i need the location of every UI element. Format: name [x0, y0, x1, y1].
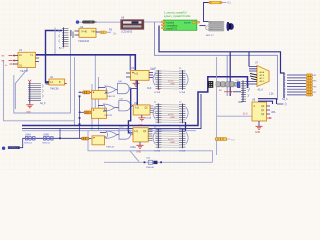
svg-text:BUZ 12: BUZ 12: [206, 35, 214, 37]
svg-text:wx 5v: wx 5v: [168, 81, 174, 83]
svg-text:A3_0: A3_0: [282, 98, 288, 101]
svg-text:U5A: U5A: [238, 101, 243, 104]
svg-text:CLOCK=1: CLOCK=1: [8, 148, 18, 150]
svg-text:1N4148: 1N4148: [146, 167, 154, 169]
svg-text:U14B: U14B: [43, 135, 49, 137]
svg-text:A Q: A Q: [134, 73, 138, 76]
svg-text:U12A: U12A: [146, 117, 152, 120]
svg-text:system_crystal/2.5 buffer: system_crystal/2.5 buffer: [164, 15, 191, 18]
svg-text:A0 A: A0 A: [260, 71, 265, 74]
svg-text:-crystal/sec: -crystal/sec: [166, 24, 178, 27]
svg-text:GND: GND: [136, 152, 141, 154]
svg-text:GND: GND: [26, 112, 31, 114]
svg-text:LCD16X2: LCD16X2: [121, 30, 133, 34]
svg-text:5v 0: 5v 0: [243, 114, 248, 116]
svg-text:CLK: CLK: [147, 88, 152, 90]
svg-text:buzzer: buzzer: [184, 21, 191, 24]
svg-text:1A: 1A: [19, 54, 22, 57]
svg-text:U13A: U13A: [130, 146, 136, 149]
svg-text:A2_0: A2_0: [40, 102, 46, 105]
svg-text:74HC08: 74HC08: [50, 89, 59, 91]
svg-text:U12: U12: [134, 103, 139, 105]
svg-text:74HC244: 74HC244: [78, 39, 90, 43]
svg-text:74H: 74H: [91, 30, 96, 33]
svg-text:A Q: A Q: [134, 130, 138, 133]
svg-text:crystal? IO: crystal? IO: [166, 27, 177, 30]
svg-text:74HC32: 74HC32: [107, 96, 116, 98]
svg-text:A3 D: A3 D: [260, 80, 265, 83]
svg-text:74 40: 74 40: [81, 30, 88, 33]
svg-text:A2_0: A2_0: [59, 47, 65, 50]
svg-text:CON8: CON8: [154, 92, 161, 94]
svg-text:A2 C: A2 C: [260, 77, 265, 80]
svg-text:74HC32: 74HC32: [104, 115, 113, 117]
svg-text:GND: GND: [255, 132, 260, 134]
svg-text:U14A: U14A: [25, 134, 31, 137]
svg-text:+crystal: +crystal: [166, 21, 174, 24]
svg-text:A Q: A Q: [135, 107, 139, 110]
svg-text:74HC32: 74HC32: [106, 147, 115, 149]
svg-text:A1 B: A1 B: [260, 74, 265, 77]
svg-text:74HC14: 74HC14: [24, 143, 32, 145]
svg-text:74HC14: 74HC14: [42, 143, 50, 145]
svg-text:GND: GND: [138, 125, 143, 127]
svg-text:CON8: CON8: [179, 92, 186, 94]
svg-text:U8A: U8A: [271, 111, 276, 114]
svg-text:A3_0: A3_0: [258, 89, 264, 92]
svg-text:GND: GND: [170, 84, 175, 86]
